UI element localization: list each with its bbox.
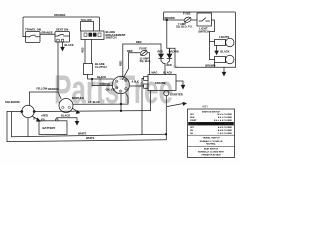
svg-text:NEUTRAL: NEUTRAL: [206, 143, 216, 146]
wire engine right to ground: [176, 81, 183, 85]
wire up to ignition switch: [126, 94, 128, 105]
svg-text:OFF: OFF: [190, 127, 195, 129]
svg-text:WHITE: WHITE: [86, 136, 95, 140]
svg-text:RED: RED: [136, 40, 142, 44]
svg-text:STARTER: STARTER: [170, 92, 183, 96]
svg-text:BLACK: BLACK: [220, 49, 229, 53]
wire diode junction to engine: [161, 58, 165, 63]
svg-text:LT. BLUE: LT. BLUE: [89, 100, 100, 104]
svg-text:B & L CLOSED: B & L CLOSED: [218, 117, 233, 119]
wire solenoid left terminal: [7, 111, 21, 113]
svg-text:M & G CLOSED: M & G CLOSED: [217, 114, 232, 116]
svg-text:A & D CLOSED: A & D CLOSED: [218, 126, 233, 129]
wire solenoid to battery +: [33, 116, 39, 120]
svg-text:ON: ON: [190, 130, 194, 132]
wire module to ignition switch (lt blue): [73, 103, 128, 105]
svg-text:CLUTCH: CLUTCH: [95, 65, 107, 69]
fuse F1: [176, 12, 193, 29]
svg-text:BROWN: BROWN: [169, 49, 179, 53]
svg-text:OFF: OFF: [190, 114, 195, 116]
wire fuse to engine: [148, 52, 150, 54]
junction: [120, 110, 122, 112]
engine: [144, 75, 176, 91]
svg-text:FUSE: FUSE: [183, 12, 191, 16]
svg-text:ORANGE: ORANGE: [41, 31, 53, 35]
svg-text:B & L & S CLOSED: B & L & S CLOSED: [214, 120, 233, 122]
switch light (LIGHT SWITCH): [197, 13, 212, 33]
svg-text:SOLENOID: SOLENOID: [5, 100, 20, 104]
wire bottom long (upper): [12, 134, 167, 137]
ground (battery): [75, 121, 78, 124]
svg-text:RED: RED: [167, 64, 172, 67]
wire fuse feed vertical: [166, 20, 168, 48]
svg-text:BROWN: BROWN: [205, 63, 215, 67]
wire lamp2 to brown return: [214, 63, 216, 68]
svg-text:ENGINE: ENGINE: [155, 81, 166, 85]
wire fuse branch to ignition switch: [123, 53, 129, 80]
svg-text:RED: RED: [158, 49, 164, 53]
svg-text:YELLOW: YELLOW: [81, 18, 93, 22]
switch ignition (key switch): [112, 76, 129, 93]
svg-text:RUN: RUN: [190, 117, 195, 119]
svg-text:GN. YW.: GN. YW.: [106, 87, 116, 91]
wire diode D2 top: [169, 48, 171, 54]
ground (lights return): [222, 67, 225, 76]
svg-text:RED: RED: [120, 61, 123, 66]
wire seat switch down to module (orange): [57, 42, 59, 92]
switch travel (TRAVEL ON): [25, 28, 41, 43]
wire solenoid right to ignition area: [35, 110, 150, 113]
KEY table: [188, 105, 235, 158]
wire lighting loop top: [164, 12, 236, 67]
wire lamp inner terminal to ground: [216, 46, 218, 52]
wire ignition switch to engine terminal: [130, 85, 144, 87]
wire clutch to ignition switch (black): [88, 75, 114, 80]
wire battery negative to ground: [57, 118, 77, 122]
svg-text:BLACK: BLACK: [97, 75, 106, 79]
svg-text:ORANGE: ORANGE: [48, 87, 60, 91]
svg-text:BLADE ENGAGEMENT SW.: BLADE ENGAGEMENT SW.: [197, 123, 224, 126]
wire red horizontal to diode: [123, 43, 161, 45]
svg-text:ON: ON: [190, 133, 194, 135]
wire left vertical to bottom: [6, 112, 8, 142]
ground (engine): [181, 85, 184, 89]
wire ignition switch top (red): [122, 44, 124, 76]
wire bottom long (lower): [7, 140, 166, 142]
svg-text:START: START: [190, 119, 197, 122]
svg-text:BLACK: BLACK: [61, 114, 70, 118]
svg-text:BLACK: BLACK: [163, 70, 172, 74]
svg-text:+RED: +RED: [41, 114, 48, 118]
svg-text:NORMALLY CLOSED WITH: NORMALLY CLOSED WITH: [198, 151, 224, 154]
lamp L2: [210, 55, 235, 63]
svg-text:RED: RED: [127, 49, 133, 53]
wire blade switch to clutch 2: [91, 40, 93, 64]
svg-text:C & D CLOSED: C & D CLOSED: [218, 133, 233, 135]
wire solenoid bottom down: [27, 118, 29, 137]
wire seat switch to ground: [62, 42, 64, 48]
wire blade switch loop: [81, 22, 94, 32]
svg-text:SWITCH: SWITCH: [198, 29, 209, 33]
svg-text:WHITE: WHITE: [78, 132, 87, 136]
junction: [120, 103, 122, 105]
wire to fuse F1: [164, 19, 184, 21]
svg-text:MAG: MAG: [151, 70, 157, 74]
svg-text:SEAT SWITCH: SEAT SWITCH: [204, 148, 219, 151]
svg-text:TRAVEL SWITCH: TRAVEL SWITCH: [203, 137, 220, 140]
wire blade switch to clutch: [84, 40, 86, 64]
table header band: [188, 122, 234, 125]
fuse F2: [139, 47, 151, 63]
wire inner vertical: [11, 112, 13, 137]
svg-text:IGNITION SWITCH: IGNITION SWITCH: [202, 111, 221, 113]
switch seat (SEAT ON): [55, 28, 70, 42]
diode D2: [167, 48, 179, 58]
wire starter down to bottom wire: [165, 96, 167, 140]
svg-text:YELLOW: YELLOW: [36, 86, 48, 90]
wire orange between travel and seat switches: [40, 33, 55, 35]
wire engine terminal down to bottom wire: [142, 78, 144, 134]
wire starter arrow: [167, 102, 186, 106]
svg-text:A & B CLOSED: A & B CLOSED: [218, 129, 233, 132]
svg-text:PURPLE: PURPLE: [100, 82, 111, 86]
module: [59, 96, 84, 113]
wire down to solenoid top: [29, 92, 31, 105]
solenoid: [5, 100, 35, 118]
wire engine bottom to solenoid wire: [150, 91, 152, 111]
svg-text:TRAVEL ON: TRAVEL ON: [25, 28, 41, 32]
svg-text:SEAT ON: SEAT ON: [56, 28, 68, 32]
ground (module): [73, 108, 80, 113]
ground (seat switch): [61, 47, 64, 50]
wire clutch to ignition switch (purple): [92, 79, 113, 86]
svg-text:NORMALLY CLOSED IN: NORMALLY CLOSED IN: [200, 140, 223, 143]
wire brown return from lamps to diode: [167, 48, 236, 67]
lamp L1: [210, 38, 235, 46]
battery B1: [39, 119, 67, 135]
wire light switch to lamps: [210, 20, 215, 60]
svg-text:ORANGE: ORANGE: [54, 13, 66, 17]
wire yellow horizontal to module: [30, 92, 62, 99]
wire ignition switch bottom: [120, 94, 122, 111]
wire top loop from travel switch to blade switch: [23, 17, 100, 37]
svg-text:BATTERY: BATTERY: [43, 126, 56, 130]
ground (lamps): [215, 51, 218, 54]
switch blade engagement: [81, 30, 126, 40]
watermark PartsTree: [54, 65, 178, 112]
blade clutch: [84, 62, 107, 75]
svg-text:OPERATOR IN SEAT: OPERATOR IN SEAT: [201, 153, 221, 156]
diode D1: [158, 44, 164, 58]
svg-text:L: L: [125, 89, 126, 91]
svg-text:KEY: KEY: [203, 105, 209, 109]
svg-text:FUSE: FUSE: [139, 47, 147, 51]
svg-text:BLACK: BLACK: [65, 43, 74, 47]
svg-text:A BLK: A BLK: [132, 81, 139, 84]
svg-text:SQ. BLO. FU.: SQ. BLO. FU.: [176, 25, 193, 29]
svg-text:SWITCH: SWITCH: [106, 36, 117, 40]
wire to fuse F2: [129, 52, 140, 54]
junction: [91, 78, 93, 80]
wire fuse to light switch: [191, 19, 197, 21]
junction: [165, 134, 167, 136]
svg-text:RED: RED: [81, 47, 84, 52]
svg-text:MODULE: MODULE: [72, 96, 84, 100]
starter terminal: [164, 91, 183, 97]
